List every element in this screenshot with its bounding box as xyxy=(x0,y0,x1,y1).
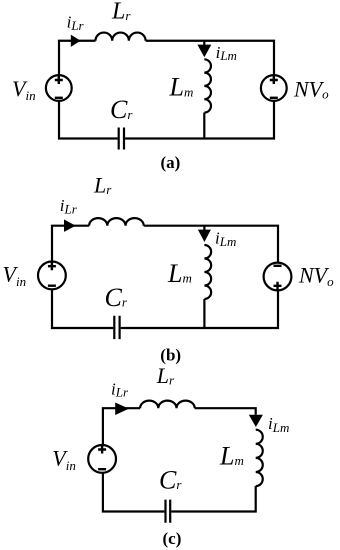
svg-text:iLm: iLm xyxy=(216,43,237,63)
svg-text:Vin: Vin xyxy=(52,446,76,474)
svg-text:iLr: iLr xyxy=(67,12,85,32)
svg-text:iLm: iLm xyxy=(268,414,289,435)
svg-text:Cr: Cr xyxy=(110,95,133,124)
svg-text:Lr: Lr xyxy=(111,0,131,25)
svg-text:Cr: Cr xyxy=(159,466,182,495)
svg-text:Lr: Lr xyxy=(156,363,175,388)
svg-text:Lm: Lm xyxy=(167,259,192,288)
svg-text:iLm: iLm xyxy=(215,229,236,250)
svg-text:NVo: NVo xyxy=(298,263,334,289)
svg-text:(a): (a) xyxy=(161,153,181,172)
svg-text:(b): (b) xyxy=(160,345,181,364)
svg-text:Cr: Cr xyxy=(105,283,128,312)
svg-text:Vin: Vin xyxy=(3,262,27,289)
svg-text:Lr: Lr xyxy=(93,173,112,198)
svg-text:Vin: Vin xyxy=(12,76,36,103)
svg-text:iLr: iLr xyxy=(111,379,129,399)
svg-text:Lm: Lm xyxy=(219,442,244,471)
svg-text:iLr: iLr xyxy=(60,196,78,216)
svg-text:NVo: NVo xyxy=(293,76,329,101)
svg-text:Lm: Lm xyxy=(169,73,194,102)
svg-text:(c): (c) xyxy=(163,529,182,548)
